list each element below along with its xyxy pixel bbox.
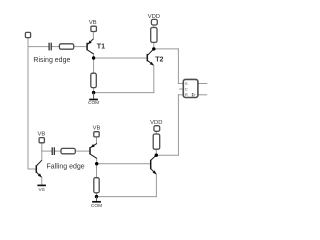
svg-text:VB: VB (93, 125, 101, 131)
svg-text:VB: VB (38, 131, 46, 137)
svg-text:T1: T1 (97, 42, 105, 50)
svg-text:S: S (185, 81, 188, 86)
svg-text:Falling edge: Falling edge (47, 164, 85, 171)
svg-text:VS: VS (38, 187, 44, 193)
svg-text:VDD: VDD (150, 120, 162, 126)
svg-text:C: C (185, 87, 188, 92)
svg-text:COM: COM (88, 100, 99, 106)
svg-text:R: R (185, 92, 188, 97)
svg-text:COM: COM (91, 203, 102, 209)
svg-text:VB: VB (89, 20, 97, 26)
svg-text:VDD: VDD (148, 14, 160, 20)
svg-text:Q: Q (191, 93, 196, 96)
svg-text:T2: T2 (155, 55, 163, 63)
svg-text:Rising edge: Rising edge (33, 57, 70, 64)
